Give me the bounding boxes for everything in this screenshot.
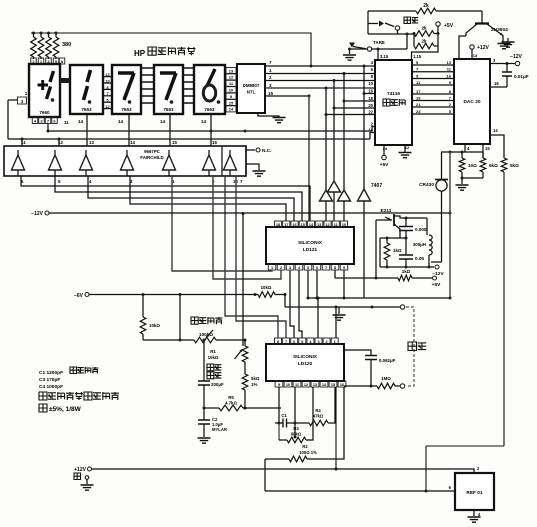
buffer inverter 1 (12, 150, 25, 176)
resistor 1M (344, 376, 400, 389)
ground input (333, 307, 346, 320)
svg-text:19: 19 (416, 96, 421, 101)
resistor display anode R2 (38, 32, 44, 60)
rail x450 (449, 152, 451, 298)
svg-text:1,15: 1,15 (413, 54, 422, 59)
svg-text:9667PC: 9667PC (144, 149, 161, 154)
display1 left pin 3 stub (8, 97, 27, 104)
svg-text:13: 13 (313, 383, 317, 387)
svg-text:1: 1 (25, 91, 28, 96)
svg-text:N.C.: N.C. (262, 148, 272, 154)
ground Q1 emitter (498, 44, 511, 49)
svg-text:9: 9 (343, 266, 345, 270)
ground top right (502, 42, 515, 47)
label input (shuru) (408, 342, 426, 351)
IC REF01 box (455, 473, 494, 510)
wire input bracket (406, 307, 414, 386)
svg-text:1%: 1% (251, 382, 257, 387)
wire gnd stub (507, 38, 509, 42)
label 74116 pin 4 (371, 60, 374, 65)
svg-text:7660: 7660 (39, 110, 50, 115)
buffer 7407 c (338, 190, 351, 221)
LD121 bottom pin 1 (268, 264, 276, 270)
svg-text:5kΩ: 5kΩ (510, 163, 519, 168)
digit +1 glyph (38, 71, 55, 102)
label inv bottom pin 2 (212, 179, 215, 184)
wire osc mid rail (380, 237, 408, 240)
svg-text:7407: 7407 (371, 183, 382, 189)
wire col out7 (236, 176, 286, 338)
svg-text:14: 14 (322, 383, 327, 387)
IC DAC 20 box (454, 59, 490, 144)
svg-text:1: 1 (269, 68, 272, 73)
display1 top pin 4 (46, 58, 52, 64)
label 7407 (371, 183, 382, 189)
wire col x364 (363, 66, 376, 189)
LD121 bottom pin 8 (331, 264, 339, 270)
label 74116 pin 16 (368, 89, 373, 94)
wire LD121 p5 col (307, 271, 310, 300)
potentiometer R1 10k (208, 340, 248, 362)
label pin 14 (3) (160, 119, 166, 124)
svg-text:6: 6 (449, 485, 452, 490)
capacitor C2 MYLAR (198, 408, 227, 437)
resistor 10k horiz (254, 285, 287, 297)
label inv top pin 15 (172, 140, 177, 145)
DM8807 pin 15 wire (265, 91, 311, 98)
note C4 1000pF (39, 384, 63, 390)
label 74116 pin 6 (371, 67, 374, 72)
svg-text:R4: R4 (315, 408, 321, 413)
svg-text:5: 5 (106, 99, 108, 103)
svg-text:7: 7 (325, 266, 327, 270)
label 74116 pin 20 (368, 103, 373, 108)
terminal -12V osc (432, 265, 444, 277)
diode CR430 (419, 152, 448, 262)
svg-text:18: 18 (368, 96, 373, 101)
wire latch-DAC row 9-16 (412, 74, 454, 79)
svg-text:8: 8 (61, 59, 64, 64)
svg-text:5kΩ: 5kΩ (251, 376, 260, 381)
svg-text:14: 14 (229, 107, 234, 112)
svg-text:5: 5 (301, 340, 303, 344)
label DM8807 NTL (243, 83, 260, 95)
resistor display anode R3 (46, 32, 52, 60)
svg-text:11: 11 (334, 223, 338, 227)
svg-text:74116: 74116 (387, 91, 400, 97)
LD120 top pin 4 (307, 338, 314, 344)
LD120 top pin 3 (315, 338, 322, 344)
display2 right pin 10 (103, 79, 112, 83)
svg-text:R3: R3 (293, 426, 299, 431)
svg-text:9: 9 (449, 80, 452, 85)
note resistors line1 (39, 392, 119, 400)
svg-text:16: 16 (340, 383, 344, 387)
LD120 bottom pin 14 (320, 381, 328, 387)
wire stair out5 (55, 176, 302, 221)
capacitor 0.01uF (502, 64, 529, 88)
inductor 300uH (413, 218, 432, 267)
svg-text:2: 2 (280, 266, 282, 270)
svg-text:1: 1 (334, 340, 336, 344)
wire latch-DAC row 17-8 (412, 89, 454, 94)
svg-text:11: 11 (64, 120, 69, 125)
rail x504 right (426, 172, 504, 491)
svg-text:7: 7 (449, 96, 452, 101)
svg-text:7653: 7653 (163, 107, 174, 112)
svg-text:8: 8 (449, 89, 452, 94)
wire anode supply rail (31, 33, 311, 66)
svg-text:2k: 2k (421, 26, 427, 31)
label inv top pin 11 (21, 140, 26, 145)
svg-text:15: 15 (172, 140, 177, 145)
DM8807 pin 3 wire (265, 83, 375, 90)
label inv top pin 13 (89, 140, 94, 145)
LD120 bottom pin 16 (338, 381, 346, 387)
resistor 2k bias1 (413, 26, 439, 37)
terminal N.C. (246, 148, 272, 154)
wire row y152 (441, 151, 483, 154)
wire 2k to latch 1,15 (412, 46, 439, 60)
svg-text:1: 1 (271, 266, 273, 270)
LD120 bottom pin 10 (284, 381, 292, 387)
svg-text:14: 14 (118, 119, 124, 124)
transistor E211 JFET (376, 208, 406, 238)
svg-text:0.01μF: 0.01μF (514, 74, 529, 79)
svg-text:3: 3 (317, 340, 319, 344)
wire D1 pin11 drop (47, 124, 49, 132)
svg-text:10: 10 (105, 79, 109, 83)
svg-text:4: 4 (467, 146, 470, 151)
resistor 5k right (501, 158, 519, 172)
display5 right pin 11 (226, 80, 236, 86)
svg-text:68kΩ: 68kΩ (291, 432, 302, 437)
svg-text:2N3904: 2N3904 (491, 27, 508, 33)
svg-text:7653: 7653 (204, 107, 215, 112)
buffer inverter 3 (80, 150, 93, 176)
LD121 top pin 18 (274, 221, 281, 227)
display1 top pin 8 (59, 58, 65, 64)
74116 pin 12 ground (399, 145, 412, 158)
svg-text:16: 16 (292, 223, 296, 227)
svg-text:+5V: +5V (444, 23, 454, 29)
svg-text:11: 11 (447, 67, 452, 72)
wire osc bottom rail (380, 266, 434, 269)
label inv bottom pin 6 (21, 179, 24, 184)
LD121 bottom pin 4 (295, 264, 303, 270)
note resistors line2 (39, 404, 82, 413)
IC DM8807 box (237, 64, 265, 113)
svg-text:TARE: TARE (373, 40, 385, 45)
terminal +12V bottom (74, 466, 480, 473)
svg-text:380: 380 (62, 42, 71, 48)
wire inv pin12 drop (58, 139, 60, 146)
wire link D3-D4 (141, 68, 154, 103)
wire clk stub (334, 270, 336, 279)
resistor display anode R1 (31, 32, 37, 60)
svg-text:7: 7 (47, 118, 50, 123)
display1 bottom pin 7 (45, 117, 51, 124)
wire latch-DAC row 19-7 (412, 96, 454, 101)
svg-text:R1: R1 (210, 349, 216, 354)
svg-text:14: 14 (201, 119, 207, 124)
label 7653 (3) (163, 107, 174, 112)
svg-text:2: 2 (477, 466, 480, 471)
svg-text:10kΩ: 10kΩ (208, 355, 219, 360)
note C3 170pF (39, 377, 60, 383)
display2 right pin 5 (103, 99, 112, 103)
display1 bottom pin 3 (39, 117, 45, 124)
wire bus2 (8, 138, 370, 141)
transistor Q1 2N3904 (466, 11, 508, 43)
LD120 bottom pin 13 (311, 381, 319, 387)
svg-text:6: 6 (293, 340, 295, 344)
svg-text:22: 22 (368, 110, 373, 115)
svg-text:0.05: 0.05 (415, 256, 424, 261)
label inv bottom pin 5 (58, 179, 61, 184)
DM8807 pin 7 wire (265, 60, 375, 68)
resistor display anode R4 (53, 32, 59, 60)
label inv bottom pin 7 (240, 179, 243, 184)
capacitor 0.062uF (344, 350, 396, 388)
svg-text:3: 3 (289, 266, 291, 270)
wire res join (461, 177, 484, 185)
switch qingchu (clear) (368, 11, 418, 34)
svg-text:14: 14 (78, 119, 84, 124)
wire clear node (368, 30, 414, 49)
wire stair out3 (130, 176, 286, 221)
svg-text:3: 3 (40, 118, 43, 123)
LD120 bottom pin 15 (329, 381, 337, 387)
LD120 top pin 8 (275, 338, 282, 344)
LD120 bottom pin 12 (302, 381, 310, 387)
resistor 2k top (368, 3, 482, 14)
terminal -12V (31, 211, 451, 217)
svg-text:23: 23 (416, 109, 421, 114)
svg-text:10: 10 (342, 223, 346, 227)
svg-text:47kΩ: 47kΩ (313, 414, 324, 419)
svg-text:12: 12 (58, 140, 63, 145)
svg-text:13: 13 (89, 140, 94, 145)
resistor 2k bias2 (414, 32, 440, 49)
display digit D1 box (7660) (29, 64, 60, 117)
svg-text:200μF: 200μF (211, 382, 224, 387)
svg-text:NTL: NTL (247, 90, 256, 95)
ground res join (456, 185, 469, 190)
label inv top pin 16 (212, 140, 217, 145)
svg-text:R2: R2 (302, 444, 308, 449)
wire LD121 p6 col (316, 270, 319, 300)
svg-text:2: 2 (449, 102, 452, 107)
svg-text:+5V: +5V (432, 282, 441, 288)
svg-text:R5: R5 (228, 395, 234, 400)
svg-text:C1 1200pF: C1 1200pF (39, 370, 63, 376)
svg-text:+5V: +5V (380, 162, 389, 168)
svg-text:16: 16 (212, 140, 217, 145)
label DAC 20 (463, 99, 480, 105)
wire stair out4 (88, 176, 294, 221)
svg-text:DAC 20: DAC 20 (463, 99, 480, 105)
capacitor C1 (275, 413, 291, 428)
terminal input low (400, 384, 404, 388)
svg-text:+12V: +12V (477, 45, 489, 51)
resistor R3 68k (279, 387, 313, 443)
buffer inverter 5 (163, 150, 176, 176)
label 74116 pin 14 (368, 128, 373, 133)
svg-text:10: 10 (286, 383, 290, 387)
wire latch-DAC row 11-9 (412, 80, 454, 85)
svg-text:5kΩ: 5kΩ (489, 163, 498, 168)
svg-text:13: 13 (105, 73, 109, 77)
display digit D4 box (7653) (154, 65, 183, 114)
IC 74116 latch box (375, 60, 412, 145)
label inv top pin 12 (58, 140, 63, 145)
display1 bottom pin 4 (32, 117, 38, 124)
terminal +5V top (436, 22, 454, 34)
svg-text:11: 11 (21, 140, 26, 145)
DM8807 pin 1 wire (265, 68, 375, 75)
display5 right pin 9 (226, 93, 236, 99)
svg-text:MYLAR: MYLAR (212, 427, 227, 432)
resistor 1k clock (335, 269, 432, 281)
svg-text:8: 8 (106, 86, 108, 90)
svg-text:2: 2 (326, 340, 328, 344)
resistor R5 4.7k (203, 395, 282, 411)
svg-text:10kΩ: 10kΩ (149, 323, 160, 328)
wire bus1 to pin2 (370, 127, 375, 140)
svg-text:SILICONIX: SILICONIX (293, 354, 318, 360)
svg-text:21: 21 (416, 102, 421, 107)
label inv bottom pin 3 (130, 179, 133, 184)
display5 right pin 15 (226, 100, 236, 106)
svg-text:5: 5 (307, 266, 309, 270)
wire D2 pin14 drop (86, 114, 88, 146)
svg-text:7: 7 (269, 60, 272, 65)
svg-text:7653: 7653 (81, 107, 92, 112)
svg-text:9: 9 (416, 74, 419, 79)
display5 right pin 13 (226, 68, 236, 74)
display digit D2 box (7653) (70, 65, 103, 114)
display2 right pin 7 (103, 92, 112, 96)
ground C2 (198, 438, 211, 443)
label zero adjust (191, 317, 223, 337)
display1 left pin 1 label (25, 91, 28, 96)
svg-text:9: 9 (230, 94, 233, 99)
note C1 1200pF (39, 367, 98, 376)
DAC pin 15 stub (483, 144, 490, 158)
terminal -6V (74, 293, 255, 300)
svg-text:17: 17 (284, 223, 288, 227)
svg-text:15: 15 (301, 223, 305, 227)
svg-text:FAIRCHILD: FAIRCHILD (140, 155, 163, 160)
svg-text:16: 16 (447, 74, 452, 79)
wire y298 (308, 297, 452, 300)
svg-text:5: 5 (416, 60, 419, 65)
resistor 5k mid (480, 152, 498, 178)
switch TARE (348, 40, 407, 51)
resistor 5k 1% (242, 362, 260, 410)
LD121 bottom pin 6 (313, 264, 321, 270)
potentiometer 100k (143, 330, 247, 343)
IC LD120 box (266, 344, 344, 381)
svg-text:3: 3 (493, 58, 496, 63)
LD120 top pin 5 (299, 338, 306, 344)
LD121 top pin 12 (324, 221, 331, 227)
wire col out10 (225, 176, 278, 338)
svg-text:C1: C1 (281, 413, 287, 418)
svg-text:2k: 2k (423, 3, 429, 9)
svg-text:6: 6 (371, 67, 374, 72)
svg-text:7: 7 (285, 340, 287, 344)
svg-text:LD121: LD121 (303, 247, 318, 253)
svg-text:3: 3 (21, 99, 24, 104)
wire link D1-D2 (60, 78, 70, 83)
svg-text:12: 12 (304, 383, 308, 387)
label 74116 pin 8 (371, 74, 374, 79)
svg-text:2: 2 (269, 75, 272, 80)
wire REF01 pin6 (265, 485, 455, 493)
LD121 bottom pin 9 (340, 264, 348, 270)
svg-text:13: 13 (473, 53, 478, 58)
wire latch-DAC row 5-13 (412, 60, 454, 65)
ground TARE (343, 49, 356, 60)
DAC pin 14 wire (490, 128, 504, 158)
buffer inverter 6 (203, 150, 216, 176)
label 1,15 (413, 54, 422, 59)
label inv top pin 14 (130, 140, 135, 145)
svg-text:8: 8 (277, 340, 279, 344)
svg-text:7: 7 (106, 92, 108, 96)
label SILICONIX LD121 (298, 240, 323, 253)
label inv bottom pin 4 (89, 179, 92, 184)
wire input top (285, 295, 401, 309)
wire zero-adj tap (179, 293, 182, 340)
svg-text:13: 13 (229, 68, 234, 73)
svg-text:10kΩ: 10kΩ (261, 285, 272, 290)
wire col out2 (213, 176, 281, 279)
svg-text:4: 4 (34, 118, 37, 123)
svg-text:14: 14 (493, 128, 498, 133)
wire LD120 p3 col (317, 297, 320, 339)
wire col x344 (343, 74, 376, 191)
svg-text:6: 6 (316, 266, 318, 270)
LD121 bottom pin 5 (304, 264, 312, 270)
svg-text:+12V: +12V (74, 467, 86, 473)
svg-text:100Ω 1%: 100Ω 1% (299, 450, 317, 455)
label 9667PC FAIRCHILD (140, 149, 163, 160)
wire TARE to latch 3,15 (377, 49, 379, 60)
DAC pin 3 wire -12V (490, 54, 523, 66)
label SILICONIX LD120 (293, 354, 318, 367)
wire col out1 (172, 176, 272, 271)
svg-text:11: 11 (416, 80, 421, 85)
LD120 top pin 7 (283, 338, 290, 344)
display5 right pin 14 (226, 106, 236, 112)
svg-text:4: 4 (298, 266, 301, 270)
wire R2 row (265, 458, 289, 460)
svg-text:−6V: −6V (74, 293, 84, 299)
svg-text:300μH: 300μH (413, 242, 426, 247)
buffer inverter 7 (224, 150, 237, 176)
svg-text:11: 11 (229, 81, 234, 86)
svg-text:14: 14 (130, 140, 135, 145)
label 3,15 (380, 54, 389, 59)
display2 right pin 13 (103, 73, 112, 77)
svg-text:15: 15 (268, 91, 274, 96)
resistor 10k vertical (140, 295, 160, 341)
wire col x309 (gray bus) (308, 96, 310, 221)
terminal ground (di) (74, 473, 94, 490)
